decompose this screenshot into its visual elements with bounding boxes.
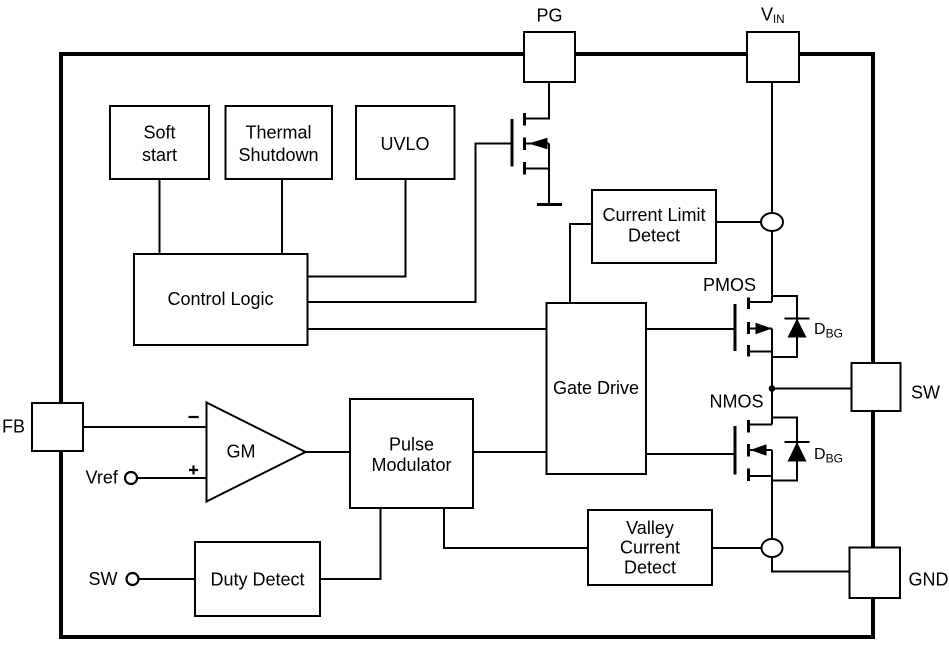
wire Vref to GM non-inverting input [137,477,207,479]
block Duty Detect [195,542,320,616]
wire Duty Detect to Pulse Modulator [320,508,381,579]
wire VIN rail [771,82,773,302]
svg-text:Vref: Vref [86,468,119,488]
svg-text:PMOS: PMOS [703,275,756,295]
PG FET source termination bar [537,203,562,206]
svg-text:Valley: Valley [626,518,674,538]
wire Soft start to Control Logic [159,179,161,254]
svg-text:Pulse: Pulse [389,434,434,454]
svg-text:Control Logic: Control Logic [167,289,273,309]
transistor NMOS [735,389,772,482]
wire Control Logic to PG FET gate [308,144,513,303]
wire PG FET drain to PG pin [525,82,550,119]
svg-text:PG: PG [536,6,562,26]
NMOS drain lead from SW node [748,389,772,425]
block Current Limit Detect [592,190,716,263]
diode DBG (NMOS body diode) [772,418,810,481]
svg-text:GND: GND [909,570,949,590]
svg-text:Thermal: Thermal [245,122,311,142]
PMOS source lead [749,301,773,303]
terminal circle SW (left) [127,573,139,585]
svg-text:Soft: Soft [143,122,175,142]
wire Gate Drive to NMOS gate [646,453,735,455]
valley current sense bubble [762,539,783,557]
wire SW terminal to Duty Detect [139,578,195,580]
PG FET body arrow [528,138,547,149]
svg-text:SW: SW [89,569,118,589]
pin GND [850,548,901,599]
block Thermal Shutdown [226,106,333,179]
svg-text:Shutdown: Shutdown [238,145,318,165]
NMOS gate bar [734,426,737,475]
NMOS body lead [749,449,773,451]
PG FET gate bar [511,119,514,167]
PMOS channel stubs [747,298,750,357]
PMOS gate bar [734,304,737,351]
svg-text:Detect: Detect [628,225,680,245]
pin SW [852,363,901,411]
PG FET channel stubs [523,113,526,175]
op-amp GM error amplifier [207,403,306,502]
wire FB to GM inverting input [82,426,207,428]
svg-text:GM: GM [227,441,256,461]
PMOS body lead [749,328,773,330]
svg-text:Duty Detect: Duty Detect [210,569,304,589]
block UVLO [356,106,455,179]
diode DBG (PMOS body diode) [772,296,810,357]
block Pulse Modulator [350,399,473,508]
NMOS channel stubs [747,420,750,481]
transistor PG FET [512,82,562,205]
svg-text:Gate Drive: Gate Drive [553,378,639,398]
PG FET source lead [525,144,550,205]
wire SW node to SW pin [772,388,852,390]
block Gate Drive [547,303,647,474]
IC boundary [61,54,873,637]
PG FET body lead [525,143,550,145]
wire Pulse Modulator to Valley Current Detect [444,508,588,548]
wire NMOS source rail to GND pin [772,450,850,572]
svg-text:FB: FB [2,417,25,437]
wire UVLO to Control Logic [308,179,406,277]
block Soft start [110,106,209,179]
wire Control Logic to Gate Drive [308,328,547,330]
wire Valley Current Detect to NMOS source rail [712,547,772,549]
PMOS drain rail to SW node [749,329,773,389]
svg-text:SW: SW [911,383,940,403]
pin FB [32,403,83,451]
svg-text:UVLO: UVLO [380,134,429,154]
wire Current Limit Detect to VIN rail [716,221,772,223]
terminal circle Vref [125,472,137,484]
svg-text:start: start [142,145,177,165]
pin VIN [747,32,799,82]
wire Gate Drive to PMOS gate [646,328,735,330]
pin PG [524,32,575,82]
svg-text:Current Limit: Current Limit [602,205,705,225]
svg-text:Detect: Detect [624,557,676,577]
node SW junction dot [769,385,776,392]
NMOS source lead [749,475,773,477]
wire Thermal Shutdown to Control Logic [281,179,283,254]
block Control Logic [134,254,308,345]
transistor PMOS [735,298,772,389]
svg-text:Current: Current [620,537,680,557]
GM inverting input minus sign [189,416,199,418]
GM non-inverting input plus sign [189,465,198,474]
svg-text:Modulator: Modulator [371,455,451,475]
NMOS body arrow [750,444,767,455]
current limit sense bubble [761,213,783,231]
wire Pulse Modulator to Gate Drive [473,451,547,453]
wire GM output to Pulse Modulator [306,451,351,453]
wire Current Limit Detect to Gate Drive [570,224,592,303]
svg-text:NMOS: NMOS [710,392,764,412]
PMOS body arrow [756,323,773,334]
block Valley Current Detect [588,510,712,585]
